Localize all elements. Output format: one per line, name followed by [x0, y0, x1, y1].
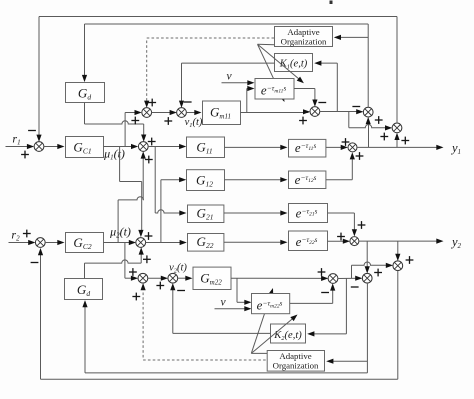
- wire: S3' to Gm22: [178, 276, 193, 281]
- wire: Gm22 output to P1: [231, 276, 328, 281]
- wire: error tap up to K1 input: [314, 61, 337, 112]
- wire: Gm22 output branch down into adjustable delay box 2: [237, 278, 252, 305]
- sign - at P2 left input: [351, 286, 359, 288]
- wire: dashed adaptive line down into S2 top: [144, 41, 149, 108]
- sign + at S2' left input: [129, 268, 137, 276]
- wire: y1 tap up into S7 bottom: [394, 133, 399, 148]
- node y1: output 1 label: [450, 141, 461, 156]
- plant block G22: [188, 234, 224, 252]
- wire: mu2 branch up to G12 input: [161, 177, 186, 242]
- block K2(e,t) adaptive gain: [271, 324, 306, 343]
- wire: S7 output up, left along outer top, down into S1 minus: [36, 17, 397, 142]
- wire: Gd output down, right with hop, down into S4 top: [85, 103, 147, 142]
- summing junction S1 (r1 comparison): [34, 142, 44, 152]
- sign + at S2 left input: [131, 117, 139, 125]
- wire: G12 output to delay e12: [225, 177, 288, 182]
- sign + at SE left input: [342, 138, 350, 146]
- wire: S2' to S3': [148, 276, 168, 281]
- wire: GC2 output tap down into S2': [125, 243, 138, 281]
- disturbance block Gd (top): [66, 83, 105, 103]
- wire: y1 tap up into S6 bottom: [366, 117, 371, 147]
- plant block G21: [188, 205, 224, 223]
- sign + at S3 left input: [164, 117, 172, 125]
- sign + at S1' left input: [23, 230, 31, 238]
- svg-text:Organization: Organization: [281, 36, 327, 46]
- wire: e21 output right then down into SE' top: [328, 213, 358, 236]
- wire: r2 input line: [9, 240, 36, 245]
- svg-text:v: v: [226, 71, 232, 83]
- wire: K2 output left then up into S3' bottom: [170, 283, 270, 333]
- wire: e12 output right then up into SE bottom: [326, 152, 355, 180]
- wire: mu1 branch down to G21 with hop over G12 feed: [155, 147, 186, 216]
- wire: G11 output to delay e11: [225, 145, 288, 150]
- summing junction SE (y1 summer): [348, 143, 357, 152]
- wire: tap to Adaptive Organization 2 right input: [326, 359, 367, 364]
- sign + at S7 bottom input: [401, 137, 409, 145]
- wire: y2 tap down into S7' top: [395, 241, 400, 261]
- adjustable delay block e^-tau_m22 s: [252, 294, 290, 314]
- wire: e22 output to SE': [328, 239, 351, 244]
- wire: adaptation fan link to Adaptive Organization 2: [251, 352, 267, 354]
- wire: S2 to S3: [152, 110, 177, 115]
- wire: S5 output to S6 left: [320, 109, 364, 114]
- sign + at S2' bottom input: [132, 293, 140, 301]
- wire: error2 tap down to K2 input: [307, 278, 346, 336]
- summing junction P1 (model mismatch loop2): [328, 274, 338, 284]
- internal model block Gm22: [193, 267, 231, 289]
- node mu1(t): controller 1 output label: [103, 147, 125, 162]
- summing junction S4 (mu1 mixing): [138, 142, 148, 152]
- delay block e^-tau21 s: [289, 204, 328, 223]
- sign - at S3 top input: [184, 101, 192, 103]
- wire: v into adjustable delay box: [222, 80, 255, 85]
- svg-text:v: v: [220, 297, 226, 309]
- wire: adaptation arrow across delay model block: [258, 44, 285, 102]
- summing junction S2 (adaptive injection): [142, 108, 152, 118]
- sign + at S4 top input: [148, 138, 156, 146]
- delay block e^-tau12 s: [289, 171, 326, 189]
- node r2: reference input 2 label: [11, 228, 20, 243]
- node v1(t): model input label: [185, 117, 203, 129]
- sign + at S7' top input: [406, 256, 414, 264]
- wire: tap to Adaptive Organization 1 right input: [334, 35, 368, 40]
- summing junction S1' (r2 comparison): [35, 238, 45, 248]
- svg-text:K1(e,t): K1(e,t): [279, 59, 308, 71]
- node v: dither signal label (bottom): [220, 297, 226, 309]
- sign - at S1' bottom feedback input: [31, 262, 39, 264]
- svg-text:Organization: Organization: [273, 360, 319, 370]
- wire: GC2 to summing junction S4': [104, 240, 137, 245]
- wire: S1' to GC2: [45, 240, 65, 245]
- wire: adaptation arrow across delay model 2 block (steep up): [251, 288, 273, 353]
- wire: GC2 cross-feed up to S4 bottom with hop (decoupler): [118, 151, 146, 242]
- adaptive organization box 1: [275, 27, 333, 47]
- node y2: output 2 label: [450, 235, 462, 250]
- wire: adaptation fan link to Adaptive Organization 1: [258, 43, 275, 46]
- wire: S1 to GC1: [44, 144, 65, 149]
- summing junction SE' (y2 summer): [350, 237, 359, 246]
- summing junction P2 (disturbance estimate loop2): [362, 273, 372, 283]
- wire: adaptation arrow across K2 block (up-right): [251, 315, 297, 354]
- wire: G22 output to delay e22: [224, 240, 288, 245]
- summing junction S3' (K2 correction): [168, 273, 178, 283]
- controller GC1: [66, 137, 104, 158]
- svg-text:μ2(t): μ2(t): [109, 225, 131, 240]
- node v: dither signal label (top): [226, 71, 232, 83]
- plant block G11: [187, 137, 225, 158]
- wire: v into adjustable delay box 2: [215, 306, 252, 311]
- wire: adaptation arrow across K1 block: [258, 44, 304, 83]
- plant block G12: [187, 170, 225, 191]
- summing junction S2' (adaptive injection loop2): [138, 273, 148, 283]
- sign + at S1 left input: [21, 151, 29, 159]
- wire: Gm11 output to S5: [241, 109, 311, 114]
- svg-text:v2(t): v2(t): [169, 263, 187, 275]
- sign + at P1 left input: [318, 268, 326, 276]
- wire: y1 output line: [357, 145, 444, 150]
- summing junction S7' (predictor feedback loop2): [393, 261, 403, 271]
- sign - at S5 top input: [318, 102, 326, 104]
- node mu2(t): controller 2 output label: [109, 225, 131, 240]
- wire: P1 output to P2 left: [338, 276, 363, 281]
- wire: Gd2 output up, right with hop, up into S4' bottom: [85, 247, 144, 278]
- sign - at S1 top feedback input: [28, 130, 36, 132]
- wire: error tap down and right into S7 left with hop: [349, 112, 392, 131]
- delay block e^-tau11 s: [289, 139, 326, 157]
- wire: GC1 to summing junction S4: [104, 144, 139, 149]
- wire: mu2 line S4' to G22: [145, 240, 186, 245]
- wire: y2 tap down into P2 top: [365, 241, 370, 273]
- sign + at S6 bottom input: [375, 116, 383, 124]
- wire: G21 output to delay e21: [224, 210, 288, 215]
- node r1: reference input 1 label: [12, 132, 20, 147]
- sign + at SE bottom input: [356, 152, 364, 160]
- wire: mu1 line S4 to G11: [148, 144, 186, 149]
- sign - at P1 bottom input: [321, 292, 329, 294]
- sign - at S3' bottom input: [177, 290, 185, 292]
- sign + at S2 top input: [148, 99, 156, 107]
- sign + at SE' left input: [337, 233, 345, 241]
- sign + at S4' bottom input: [143, 255, 151, 263]
- disturbance block Gd (bottom): [65, 279, 103, 300]
- wire: delay model output right then down into S5 top: [294, 89, 318, 107]
- sign + at P2 top input: [374, 269, 382, 277]
- summing junction S3 (K1 correction): [177, 108, 187, 118]
- wire: Gm11 output branch up into adjustable delay box: [247, 86, 255, 113]
- sign + at S3' left input: [156, 282, 164, 290]
- wire: P2 output down, left along bottom, up into Gd2: [82, 283, 367, 373]
- internal model block Gm11: [203, 101, 241, 125]
- wire: GC1 output tap up into S2: [125, 110, 142, 147]
- wire: dashed adaptive line horizontal to Adaptive Organization 1: [147, 37, 275, 39]
- sign + at SE' top input: [358, 221, 366, 229]
- wire: S7' output down, left along outer bottom, up into S1' minus: [38, 248, 398, 379]
- wire: e11 output to SE: [326, 145, 348, 150]
- delay block e^-tau22 s: [289, 231, 328, 251]
- sign + at S7 left input: [380, 133, 388, 141]
- summing junction S5 (model mismatch): [310, 107, 320, 117]
- wire: S6 output up, left along top, down into Gd: [82, 24, 368, 107]
- wire: GC1 cross-feed down to S4' top (decoupler): [120, 147, 144, 238]
- wire: y2 output line: [359, 239, 444, 244]
- sign + at S4' top input: [145, 232, 153, 240]
- summing junction S4' (mu2 mixing): [136, 238, 146, 248]
- wire: S3 to Gm11: [186, 110, 201, 115]
- adjustable delay block e^-tau_m11 s: [255, 79, 294, 100]
- wire: dashed adaptive line horizontal to Adaptive Organization 2: [143, 359, 267, 361]
- sign + at S5 left input: [299, 117, 307, 125]
- wire: delay model 2 output right then up into P1 bottom: [290, 283, 336, 303]
- adaptive organization box 2: [267, 351, 324, 372]
- sign + at S4 bottom input: [145, 156, 153, 164]
- svg-text:v1(t): v1(t): [185, 117, 203, 129]
- wire: K1 output left then down into S3 top: [179, 63, 275, 108]
- block K1(e,t) adaptive gain: [275, 54, 313, 72]
- wire: error2 tap up and right into S7' left with hop: [352, 262, 394, 278]
- svg-text:μ1(t): μ1(t): [103, 147, 125, 162]
- sign - at S6 left input: [352, 106, 360, 108]
- node v2(t): model 2 input label: [169, 263, 187, 275]
- wire: dashed adaptive line up into S2' bottom: [141, 283, 146, 357]
- stray scan mark at top edge: [330, 1, 333, 5]
- summing junction S6 (disturbance estimate): [363, 107, 373, 117]
- summing junction S7 (predictor feedback): [392, 123, 402, 133]
- wire: r1 input line: [6, 144, 35, 149]
- controller GC2: [66, 233, 104, 253]
